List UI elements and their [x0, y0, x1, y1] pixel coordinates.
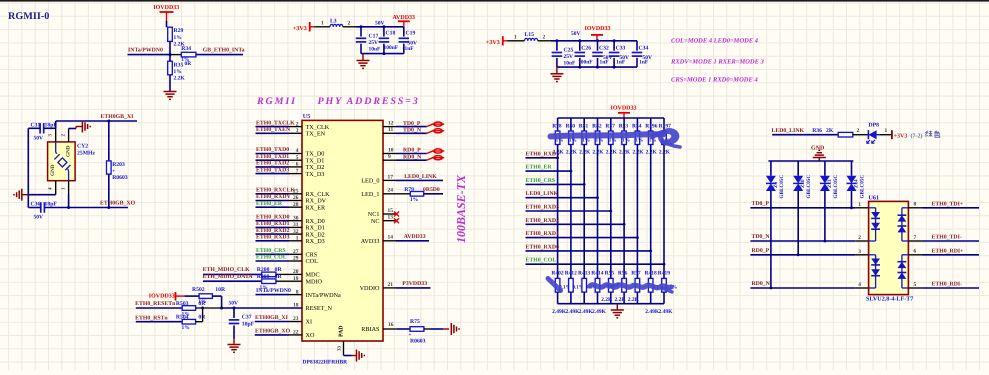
svg-text:C37: C37 [242, 314, 252, 320]
svg-text:2.2K: 2.2K [592, 149, 604, 155]
svg-text:SLVU2.8-4-LF-T7: SLVU2.8-4-LF-T7 [866, 296, 913, 303]
wire array column 1 [556, 145, 559, 279]
pin 1 RX_D3 / net label ETH0_RXD3 [256, 235, 325, 246]
svg-text:XO: XO [306, 332, 315, 339]
svg-text:R82: R82 [592, 123, 602, 129]
power port IOVDD33 (reset) [149, 292, 185, 301]
wire array column 5 [609, 145, 612, 279]
ground (crystal top right) [76, 121, 90, 133]
svg-text:GND: GND [50, 164, 56, 176]
svg-text:R418: R418 [645, 270, 657, 276]
svg-text:R75: R75 [410, 319, 420, 325]
junction C37/reset [233, 307, 236, 310]
LED DP8 [867, 122, 880, 143]
ground (RBIAS) [443, 323, 459, 335]
net label ETH_MDIO_DATA [203, 274, 254, 280]
svg-text:ETH0_ER: ETH0_ER [526, 165, 553, 171]
svg-text:10pF: 10pF [242, 322, 255, 328]
pin 2 of CY2 [61, 129, 69, 142]
pin 5 of U61 / net label ETH0_RDI- [908, 282, 979, 289]
svg-text:1: 1 [514, 34, 517, 40]
net label ETH0_RXD0 (array) [526, 244, 651, 251]
svg-text:2: 2 [858, 235, 861, 241]
svg-text:1%: 1% [182, 325, 190, 331]
svg-text:2.2K: 2.2K [566, 149, 578, 155]
power port +3V3 (IOVDD33 filter) [486, 36, 508, 46]
svg-text:GBLC05C: GBLC05C [833, 175, 839, 199]
annotation scribble bottom [590, 284, 672, 292]
pin 12 TD_P / net label TD0_P [383, 121, 444, 127]
svg-text:ETH0_TXCLK: ETH0_TXCLK [256, 120, 295, 126]
svg-text:R502: R502 [192, 287, 205, 293]
resistor R36 [812, 128, 853, 137]
note CRS/RXD0 modes [671, 77, 758, 84]
svg-text:TD0_P: TD0_P [752, 201, 770, 207]
pin 14 AVD33 / net label AVDD33 [361, 234, 429, 245]
svg-text:2.2K: 2.2K [659, 149, 671, 155]
pin 28 RX_ER / net label ETH0_ER [256, 201, 326, 212]
resistor R502 [184, 287, 226, 305]
capacitor C36 (XO) [29, 202, 57, 221]
svg-text:COL=MODE 4 LED0=MODE 4: COL=MODE 4 LED0=MODE 4 [671, 38, 759, 45]
svg-text:LED_0: LED_0 [361, 178, 379, 185]
pin 5 TX_D1 / net label ETH0_TXD1 [256, 154, 325, 165]
svg-text:ETH0GB_XI: ETH0GB_XI [255, 315, 289, 321]
svg-text:ETH0_COL: ETH0_COL [256, 255, 287, 261]
svg-text:R35: R35 [174, 62, 184, 68]
svg-text:RGMII: RGMII [256, 96, 297, 107]
svg-text:25V: 25V [369, 40, 379, 46]
svg-text:R208: R208 [257, 267, 270, 273]
svg-text:+: + [112, 169, 115, 175]
resistor R56 [614, 270, 627, 303]
junction node R29/R34/R35 [169, 53, 172, 56]
svg-text:ETH0_RXD2: ETH0_RXD2 [256, 228, 290, 234]
svg-text:1%: 1% [174, 69, 182, 75]
pin 7 of U61 / net label ETH0_TDI- [908, 235, 979, 242]
svg-text:ETH0_RXD2: ETH0_RXD2 [526, 218, 560, 224]
svg-text:2.2K: 2.2K [174, 42, 186, 48]
pin 33 PAD ground [337, 341, 365, 362]
pin 3 of CY2 [48, 128, 56, 142]
ground (TVS rail) [813, 150, 826, 161]
svg-text:R209: R209 [257, 274, 270, 280]
svg-text:1nF: 1nF [405, 46, 415, 52]
svg-text:21: 21 [388, 282, 394, 288]
resistor R35 [168, 61, 186, 81]
svg-text:R55: R55 [605, 270, 615, 276]
svg-text:PHY ADDRESS=3: PHY ADDRESS=3 [318, 96, 420, 107]
svg-text:19: 19 [293, 276, 299, 282]
wire TVS gnd rail [768, 160, 853, 162]
svg-text:10uF: 10uF [369, 47, 382, 53]
svg-text:ETH0_ER: ETH0_ER [256, 201, 283, 207]
wire left vertical to XO rail [28, 195, 29, 208]
svg-text:2: 2 [296, 121, 299, 127]
svg-text:(7-2): (7-2) [911, 133, 923, 140]
net label ETH_MDIO_CLK [203, 267, 251, 273]
wire TD0_P row [750, 206, 868, 209]
wire node to R34 [170, 54, 181, 56]
svg-text:0R5D0: 0R5D0 [423, 187, 440, 193]
pin 2 of L3 [343, 20, 356, 27]
capacitor C31 [28, 122, 57, 141]
power port +3V3 (LED) [892, 130, 907, 139]
pin 1 of L3 [315, 20, 331, 27]
net label LED0_LINK (array) [526, 191, 598, 198]
svg-text:GBLC05C: GBLC05C [806, 175, 812, 199]
power port +3V3 (AVDD33 filter) [293, 22, 315, 32]
svg-text:C19: C19 [406, 30, 416, 36]
op-amp U5 DP83822 PHY [302, 113, 383, 341]
svg-text:RD0_P: RD0_P [752, 248, 770, 254]
ground (below R35) [164, 92, 177, 100]
transistor array U61 SLVU2.8-4 box [868, 195, 908, 295]
svg-text:8: 8 [296, 289, 299, 295]
net label ETH0_RXDV (array) [526, 151, 562, 158]
wire array column 4 [596, 145, 599, 279]
svg-text:50V: 50V [375, 20, 385, 26]
sheet border top edge [0, 0, 989, 2]
junction C18 node [382, 25, 385, 28]
svg-text:IOVDD33: IOVDD33 [149, 294, 175, 300]
pin 21 VDDIO / net label P3VDD33 [360, 281, 431, 292]
TVS diode Z13 GBLC05C [820, 161, 839, 241]
wire array column 8 [649, 145, 652, 279]
junction R203/XO [107, 206, 110, 209]
svg-text:COL: COL [306, 258, 319, 265]
svg-text:R36: R36 [812, 128, 822, 134]
svg-text:2: 2 [857, 128, 860, 134]
svg-text:30: 30 [293, 215, 299, 221]
svg-text:ETH0GB_XO: ETH0GB_XO [100, 200, 136, 206]
svg-text:2K: 2K [826, 128, 834, 134]
svg-text:R413: R413 [578, 270, 590, 276]
wire IOVDD33 to R29 [166, 21, 168, 27]
label 50V (C37) [229, 300, 239, 306]
pin 2 TX_CLK / net label ETH0_TXCLK [256, 120, 330, 131]
wire C31 corner to XI rail [55, 121, 57, 128]
svg-text:VDDIO: VDDIO [360, 285, 380, 292]
svg-text:DP83822HFRHBR: DP83822HFRHBR [303, 360, 349, 366]
svg-text:4: 4 [858, 282, 861, 288]
svg-text:25V: 25V [564, 54, 574, 60]
pin 4 of U61 [858, 282, 861, 288]
wire array bottom rail [558, 303, 664, 305]
pin 24 LED_1 / resistor R79 [361, 187, 443, 203]
svg-text:TD0_N: TD0_N [752, 234, 771, 240]
ground (IOVDD33 filter) [550, 67, 563, 82]
annotation scribble top [551, 130, 681, 147]
svg-text:RX_ER: RX_ER [306, 204, 326, 211]
pin 20 MDC [293, 269, 320, 279]
svg-text:PAD: PAD [339, 326, 345, 337]
wire IOVDD33 filter bottom rail [557, 66, 637, 69]
svg-text:LED0_LINK: LED0_LINK [772, 128, 805, 134]
wire L3 to AVDD33 rail [356, 26, 404, 28]
svg-text:ETH0_CRS: ETH0_CRS [526, 178, 556, 184]
note (7-2) green [911, 131, 940, 140]
svg-text:R37: R37 [605, 123, 615, 129]
resistor R208 [203, 267, 302, 277]
net label LED0_LINK (LED) [772, 128, 805, 134]
svg-text:RX_D3: RX_D3 [306, 238, 325, 245]
svg-text:0R: 0R [198, 301, 206, 307]
svg-text:7: 7 [296, 168, 299, 174]
svg-text:RESET_N: RESET_N [306, 305, 333, 312]
resistor R82 [592, 118, 604, 155]
pin 2 of DP8 [853, 128, 869, 135]
svg-text:R79: R79 [404, 187, 414, 193]
svg-text:24: 24 [388, 188, 394, 194]
resistor R81 [579, 118, 591, 155]
TVS diode Z14 GBLC05C [847, 161, 866, 208]
svg-text:10uF: 10uF [564, 60, 577, 66]
U61 internal diodes top-left [869, 208, 880, 241]
svg-text:1: 1 [321, 20, 324, 26]
resistor R414 [591, 270, 610, 314]
svg-text:R503: R503 [176, 301, 189, 307]
svg-text:ETH0_RDI-: ETH0_RDI- [932, 282, 963, 288]
svg-text:R80: R80 [566, 123, 576, 129]
svg-text:GB_ETH0_INTa: GB_ETH0_INTa [203, 47, 245, 53]
wire left vertical (C31 to gnd row) [27, 128, 29, 194]
svg-text:C18: C18 [386, 30, 396, 36]
pin 30 RX_D0 / net label ETH0_RXD0 [256, 214, 325, 225]
pin 31 RX_D1 / net label ETH0_RXD1 [256, 221, 325, 232]
svg-text:5: 5 [296, 155, 299, 161]
svg-text:29: 29 [293, 256, 299, 262]
net label INTa/PWDN0 (pin 8) [256, 288, 303, 295]
svg-text:+: + [409, 333, 412, 338]
pin 18 RESET_N [293, 303, 333, 313]
svg-text:2: 2 [348, 20, 351, 26]
pin 11 TD_M / net label TD0_N [383, 127, 444, 133]
svg-text:R196: R196 [645, 123, 657, 129]
svg-text:14: 14 [388, 235, 394, 241]
svg-text:LED_1: LED_1 [361, 191, 379, 198]
svg-text:100nF: 100nF [384, 45, 399, 51]
resistor R54 [632, 118, 644, 155]
svg-text:ETH0_RXCLK: ETH0_RXCLK [256, 188, 295, 194]
wire pin1 to XO rail [68, 194, 70, 208]
svg-text:ETH0_RXD1: ETH0_RXD1 [526, 231, 560, 237]
resistor R55 [601, 270, 614, 303]
resistor R37 [605, 118, 617, 155]
pin 3 TX_EN / net label ETH0_TXEN [256, 127, 326, 138]
svg-text:GBLC05C: GBLC05C [860, 175, 866, 199]
svg-text:AVDD33: AVDD33 [404, 234, 426, 240]
svg-text:20: 20 [293, 269, 299, 275]
svg-text:R0603: R0603 [410, 339, 426, 345]
pin 6 TX_D2 / net label ETH0_TXD2 [256, 161, 325, 172]
pin 2 of U61 [858, 235, 861, 241]
svg-text:10: 10 [388, 147, 394, 153]
wire array column 7 [636, 145, 639, 279]
svg-text:ETH0_RXD0: ETH0_RXD0 [526, 244, 560, 250]
svg-text:50V: 50V [571, 31, 581, 37]
junction C17 node [360, 25, 363, 28]
svg-text:ETH0_RXD0: ETH0_RXD0 [256, 214, 290, 220]
pin 13 NC no-connect [371, 215, 399, 225]
label R29 texts [174, 28, 186, 47]
inductor L15 [525, 32, 538, 41]
svg-text:27: 27 [293, 249, 299, 255]
svg-text:ETH0_TXD3: ETH0_TXD3 [256, 167, 289, 173]
svg-text:R53: R53 [619, 123, 629, 129]
TVS diode Z6 GBLC05C [766, 161, 785, 288]
wire ETH0GB_XO rail [44, 207, 128, 209]
svg-text:XI: XI [306, 319, 313, 326]
svg-text:1: 1 [885, 128, 888, 134]
pin 32 RX_D2 / net label ETH0_RXD2 [256, 228, 325, 239]
svg-text:R0603: R0603 [112, 175, 128, 181]
svg-text:11: 11 [388, 127, 393, 133]
ground (AVDD33 filter) [357, 54, 370, 69]
svg-text:U5: U5 [303, 113, 311, 120]
resistor R29 [168, 27, 173, 41]
pin 3 of U61 [858, 249, 861, 255]
resistor R418 [645, 270, 664, 314]
wire RD0_N row [750, 287, 868, 290]
resistor R197 [659, 118, 671, 155]
net label ETH0GB_XO (pin 22) [255, 328, 302, 335]
resistor R402 [551, 270, 570, 314]
net label ETH0_RXD1 (array) [526, 231, 638, 238]
crystal CY2 [48, 142, 96, 181]
U61 internal diodes bottom-left [869, 255, 880, 288]
svg-text:5: 5 [914, 282, 917, 288]
svg-text:CY2: CY2 [77, 144, 88, 150]
svg-text:2.2K: 2.2K [628, 297, 640, 303]
svg-text:0R: 0R [275, 267, 283, 273]
svg-text:ETH_MDIO_DATA: ETH_MDIO_DATA [203, 274, 254, 280]
pin 27 CRS / net label ETH0_CRS [256, 248, 318, 259]
resistor R196 [645, 118, 657, 155]
wire pin4 row to left vertical [28, 194, 55, 196]
svg-text:2.2K: 2.2K [614, 297, 626, 303]
svg-text:1: 1 [296, 236, 299, 242]
svg-text:2.2K: 2.2K [632, 149, 644, 155]
svg-text:ETH0_RXD3: ETH0_RXD3 [526, 205, 560, 211]
svg-text:2.2K: 2.2K [601, 297, 613, 303]
net label INTa/PWDN0 (top-left) [128, 47, 163, 53]
svg-text:ETH0_CRS: ETH0_CRS [256, 248, 286, 254]
title RGMII PHY ADDRESS=3 [256, 96, 420, 107]
resistor R80 [566, 118, 578, 155]
capacitor C19 [399, 27, 417, 54]
resistor R419 [658, 270, 677, 314]
ground (C37) [228, 339, 241, 353]
pin 19 MDIO [293, 276, 323, 286]
power port IOVDD33 (array) [611, 105, 637, 118]
svg-text:16: 16 [388, 322, 394, 328]
resistor R57 [628, 270, 641, 303]
svg-text:1%: 1% [609, 138, 617, 144]
svg-text:ETH0_RXDV: ETH0_RXDV [256, 194, 292, 200]
pin 17 LED_0 / net label LED0_LINK [361, 174, 443, 185]
svg-text:L3: L3 [330, 19, 337, 25]
junction nodes on IOVDD33 rail [555, 39, 615, 42]
svg-text:50V: 50V [229, 300, 239, 306]
svg-text:RD0_N: RD0_N [752, 281, 771, 287]
wire INTa/PWDN0 [128, 54, 171, 56]
svg-text:GND: GND [66, 145, 72, 157]
svg-text:100nF: 100nF [578, 60, 593, 66]
svg-text:2.49K: 2.49K [592, 309, 607, 315]
svg-text:ETH0_RXD3: ETH0_RXD3 [256, 235, 290, 241]
svg-text:C31: C31 [31, 122, 41, 128]
svg-text:50V: 50V [34, 215, 44, 221]
svg-text:C33: C33 [616, 46, 626, 52]
capacitor C34 [632, 41, 652, 67]
net label TD0_N [752, 234, 771, 240]
svg-text:R57: R57 [631, 270, 641, 276]
pin 4 of CY2 [48, 181, 56, 195]
capacitor C37 [229, 308, 255, 339]
svg-text:31: 31 [293, 222, 299, 228]
resistor R203 [107, 121, 128, 208]
svg-text:LED0_LINK: LED0_LINK [404, 174, 437, 180]
svg-text:18pF: 18pF [45, 202, 58, 208]
svg-text:13: 13 [388, 215, 394, 221]
wire ETH0GB_XI rail [56, 120, 137, 122]
svg-text:LED0_LINK: LED0_LINK [526, 191, 559, 197]
wire TD0_N row [750, 240, 868, 243]
wire pin2 to gnd stub [69, 128, 76, 130]
svg-text:1nF: 1nF [616, 60, 626, 66]
ground (array) [611, 304, 624, 318]
svg-text:RD0_N: RD0_N [403, 154, 422, 160]
svg-text:ETH0_TXD2: ETH0_TXD2 [256, 161, 289, 167]
svg-text:2.2K: 2.2K [579, 149, 591, 155]
resistor R209 [203, 274, 302, 291]
svg-text:ETH0_RESETn: ETH0_RESETn [135, 301, 176, 307]
svg-text:TD0_N: TD0_N [403, 128, 422, 134]
svg-text:ETH0_RXD1: ETH0_RXD1 [256, 221, 290, 227]
wire R29 to node [169, 41, 171, 54]
svg-text:ETH_MDIO_CLK: ETH_MDIO_CLK [203, 267, 251, 273]
svg-text:P3VDD33: P3VDD33 [402, 281, 427, 287]
svg-text:TX_EN: TX_EN [306, 131, 326, 138]
resistor R53 [619, 118, 631, 155]
svg-text:IOVDD33: IOVDD33 [611, 105, 637, 111]
wire array column 3 [583, 145, 586, 279]
svg-text:1%: 1% [174, 35, 182, 41]
wire array column 2 [570, 145, 573, 279]
svg-text:IOVDD33: IOVDD33 [153, 5, 179, 11]
pin 1 of DP8 [880, 128, 892, 135]
svg-text:ETH0_RSTn: ETH0_RSTn [135, 316, 168, 322]
svg-text:R81: R81 [579, 123, 589, 129]
pin 4 TX_D0 / net label ETH0_TXD0 [256, 147, 325, 158]
svg-text:R412: R412 [565, 270, 577, 276]
svg-text:R78: R78 [552, 123, 562, 129]
svg-text:7: 7 [914, 235, 917, 241]
wire R502 down to reset net [221, 296, 223, 308]
svg-text:1nF: 1nF [600, 60, 610, 66]
label GND (TVS) [811, 146, 825, 152]
pin 6 of U61 / net label ETH0_RDI+ [908, 248, 979, 255]
svg-text:18: 18 [293, 303, 299, 309]
power port AVDD33 [393, 15, 416, 27]
junction XO/pin1 [67, 206, 70, 209]
svg-text:GND: GND [811, 146, 825, 152]
svg-text:2.2K: 2.2K [619, 149, 631, 155]
svg-text:15: 15 [388, 208, 394, 214]
svg-text:6: 6 [914, 249, 917, 255]
svg-text:MDIO: MDIO [306, 278, 323, 285]
